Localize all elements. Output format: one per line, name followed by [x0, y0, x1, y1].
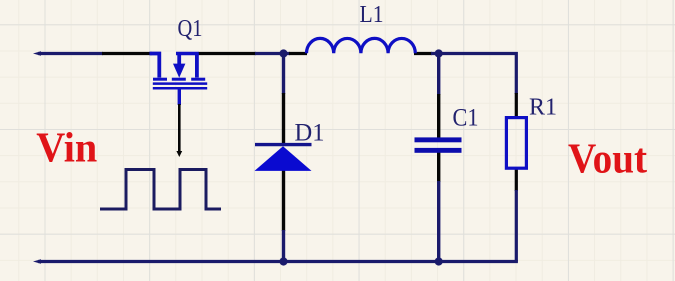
- svg-text:C1: C1: [453, 105, 479, 132]
- svg-text:Vout: Vout: [568, 137, 647, 183]
- svg-text:D1: D1: [295, 120, 325, 147]
- svg-text:Vin: Vin: [36, 126, 97, 172]
- svg-text:L1: L1: [360, 2, 384, 28]
- svg-text:Q1: Q1: [178, 15, 203, 42]
- svg-text:R1: R1: [529, 94, 557, 120]
